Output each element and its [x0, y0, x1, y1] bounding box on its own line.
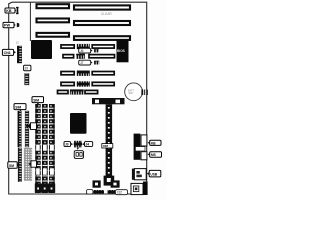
svg-text:DM: DM — [103, 144, 108, 148]
svg-text:J7: J7 — [80, 61, 84, 65]
svg-text:ERY: ERY — [129, 92, 134, 95]
svg-text:BIOS: BIOS — [117, 49, 125, 53]
svg-text:J9: J9 — [25, 67, 29, 71]
svg-text:MS: MS — [151, 153, 156, 157]
svg-text:SIM: SIM — [33, 98, 39, 102]
svg-text:J4: J4 — [86, 143, 90, 147]
svg-text:CLEAR: CLEAR — [101, 12, 112, 16]
svg-text:USB: USB — [150, 172, 157, 176]
svg-text:J6: J6 — [80, 49, 84, 53]
svg-text:SIM: SIM — [15, 105, 21, 109]
svg-text:J3: J3 — [65, 143, 69, 147]
svg-text:CN1: CN1 — [4, 51, 11, 55]
svg-text:SM: SM — [9, 164, 14, 168]
svg-text:PW: PW — [4, 24, 10, 28]
svg-text:J2: J2 — [16, 40, 19, 44]
svg-text:J12: J12 — [117, 191, 122, 195]
svg-text:KB: KB — [6, 9, 12, 13]
svg-text:KB: KB — [151, 141, 156, 145]
